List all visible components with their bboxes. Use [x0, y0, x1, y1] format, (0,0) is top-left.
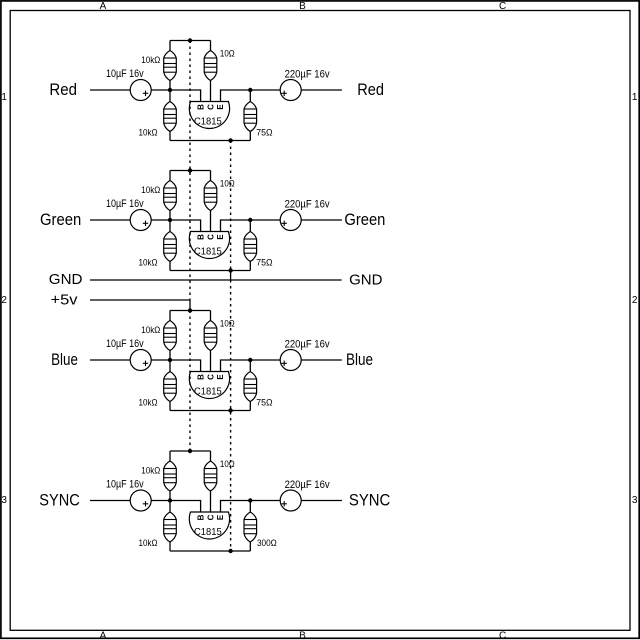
svg-text:Green: Green: [40, 210, 81, 229]
svg-text:10kΩ: 10kΩ: [139, 538, 158, 548]
svg-text:C: C: [206, 104, 215, 110]
svg-text:E: E: [216, 514, 225, 520]
capacitor C1 10uF input coupling: [130, 80, 151, 101]
resistor R2 10Ω collector load: [210, 41, 212, 51]
svg-text:B: B: [196, 234, 205, 240]
svg-text:10kΩ: 10kΩ: [141, 185, 160, 195]
wire: right lead of Blue output: [301, 359, 342, 361]
svg-text:C: C: [206, 374, 215, 380]
wire: bottom emitter rail of stage 4: [170, 550, 250, 552]
wire: left lead of Red input: [90, 89, 130, 91]
wire: top supply rail of stage 2: [170, 170, 211, 172]
node: GND bus tap: [228, 138, 232, 142]
svg-text:C: C: [499, 1, 506, 12]
svg-text:1: 1: [1, 92, 7, 103]
svg-text:E: E: [216, 374, 225, 380]
svg-text:+5v: +5v: [51, 292, 79, 308]
node: GND bus tap: [228, 268, 232, 272]
svg-text:B: B: [196, 104, 205, 110]
node: base junction of Q4: [168, 498, 172, 502]
resistor R16 300Ω emitter: [249, 501, 251, 513]
svg-text:10kΩ: 10kΩ: [141, 55, 160, 65]
svg-text:B: B: [196, 374, 205, 380]
svg-text:1: 1: [632, 92, 638, 103]
wire: left lead of Blue input: [90, 359, 130, 361]
svg-text:10µF 16v: 10µF 16v: [106, 68, 144, 80]
node: output junction: [248, 88, 252, 92]
wire: input cap to base node: [151, 500, 170, 502]
wire: left lead of SYNC input: [90, 500, 130, 502]
wire: input cap to base node: [151, 89, 170, 91]
svg-text:Blue: Blue: [346, 350, 373, 369]
svg-text:75Ω: 75Ω: [256, 258, 273, 268]
wire: input cap to base node: [151, 219, 170, 221]
wire: output node to output cap: [250, 89, 280, 91]
resistor R5 10kΩ upper bias: [169, 171, 171, 181]
svg-text:10kΩ: 10kΩ: [139, 258, 158, 268]
wire: base node to base pin of Q2: [170, 220, 201, 232]
svg-text:Red: Red: [49, 80, 77, 99]
wire: emitter pin of Q4 to output node: [221, 501, 251, 513]
svg-text:75Ω: 75Ω: [256, 398, 273, 408]
wire: emitter pin of Q2 to output node: [221, 220, 251, 232]
svg-text:2: 2: [632, 295, 638, 306]
wire: output node to output cap: [250, 219, 280, 221]
wire: right lead of Green output: [301, 219, 342, 221]
svg-text:10kΩ: 10kΩ: [141, 325, 160, 335]
wire: output node to output cap: [250, 500, 280, 502]
wire: Green emitter rail drop to GND rail: [230, 271, 232, 281]
resistor R13 10kΩ upper bias: [169, 451, 171, 461]
wire: emitter pin of Q1 to output node: [221, 90, 251, 102]
svg-text:10Ω: 10Ω: [220, 49, 235, 59]
wire: GND horizontal rail: [90, 279, 342, 281]
resistor R1 10kΩ upper bias: [169, 41, 171, 51]
wire: bottom emitter rail of stage 2: [170, 270, 250, 272]
svg-text:Red: Red: [357, 80, 384, 99]
svg-text:Green: Green: [344, 210, 385, 229]
resistor R8 75Ω emitter: [249, 220, 251, 232]
capacitor C3 10uF input coupling: [130, 210, 151, 231]
svg-text:220µF 16v: 220µF 16v: [285, 198, 330, 210]
bus wire: GND dashed bus, GND rail to SYNC rail: [230, 280, 232, 551]
wire: top supply rail of stage 1: [170, 40, 211, 42]
capacitor C8 220uF output coupling: [280, 490, 301, 511]
svg-text:GND: GND: [349, 272, 382, 288]
resistor R3 10kΩ lower bias: [169, 90, 171, 102]
wire: right lead of SYNC output: [301, 500, 342, 502]
node: +5v bus tap: [188, 168, 192, 172]
svg-text:A: A: [100, 630, 107, 640]
resistor R12 75Ω emitter: [249, 360, 251, 372]
svg-text:SYNC: SYNC: [39, 491, 80, 510]
wire: base node to base pin of Q4: [170, 501, 201, 513]
svg-text:10kΩ: 10kΩ: [139, 128, 158, 138]
svg-text:10kΩ: 10kΩ: [139, 398, 158, 408]
wire: input cap to base node: [151, 359, 170, 361]
resistor R7 10kΩ lower bias: [169, 220, 171, 232]
resistor R11 10kΩ lower bias: [169, 360, 171, 372]
svg-text:220µF 16v: 220µF 16v: [285, 479, 330, 491]
capacitor C7 10uF input coupling: [130, 490, 151, 511]
node: +5v bus tap: [188, 449, 192, 453]
svg-text:75Ω: 75Ω: [256, 128, 273, 138]
node: base junction of Q3: [168, 358, 172, 362]
resistor R9 10kΩ upper bias: [169, 311, 171, 321]
node: output junction: [248, 358, 252, 362]
svg-text:2: 2: [1, 295, 7, 306]
transistor Q3 2SC1815 (TO-92 outline): [189, 372, 229, 399]
wire: left lead of Green input: [90, 219, 130, 221]
bus wire: +5v dashed bus, Blue rail to SYNC rail: [189, 311, 191, 452]
svg-text:3: 3: [1, 495, 7, 506]
svg-text:10Ω: 10Ω: [220, 459, 235, 469]
wire: bottom emitter rail of stage 1: [170, 140, 250, 142]
capacitor C2 220uF output coupling: [280, 80, 301, 101]
wire: bottom emitter rail of stage 3: [170, 410, 250, 412]
svg-text:C1815: C1815: [194, 115, 222, 127]
svg-text:E: E: [216, 234, 225, 240]
svg-text:B: B: [299, 630, 306, 640]
wire: right lead of Red output: [301, 89, 342, 91]
resistor R15 10kΩ lower bias: [169, 501, 171, 513]
svg-text:A: A: [100, 1, 107, 12]
resistor R14 10Ω collector load: [210, 451, 212, 461]
wire: +5v feed to bus: [90, 299, 190, 301]
svg-text:C: C: [499, 630, 506, 640]
transistor Q4 2SC1815 (TO-92 outline): [189, 512, 229, 539]
svg-text:10µF 16v: 10µF 16v: [106, 338, 144, 350]
wire: top supply rail of stage 4: [170, 450, 211, 452]
transistor Q1 2SC1815 (TO-92 outline): [189, 102, 229, 129]
node: base junction of Q1: [168, 88, 172, 92]
capacitor C4 220uF output coupling: [280, 210, 301, 231]
svg-text:10Ω: 10Ω: [220, 179, 235, 189]
svg-text:Blue: Blue: [51, 350, 78, 369]
wire: base node to base pin of Q1: [170, 90, 201, 102]
capacitor C6 220uF output coupling: [280, 350, 301, 371]
svg-text:C: C: [206, 514, 215, 520]
svg-text:C1815: C1815: [194, 526, 222, 538]
svg-text:SYNC: SYNC: [349, 491, 390, 510]
svg-text:10µF 16v: 10µF 16v: [106, 479, 144, 491]
wire: base node to base pin of Q3: [170, 360, 201, 372]
bus wire: +5v dashed bus, Red rail to +5v feed: [189, 41, 191, 301]
svg-text:10µF 16v: 10µF 16v: [106, 198, 144, 210]
svg-text:C1815: C1815: [194, 385, 222, 397]
node: output junction: [248, 218, 252, 222]
svg-text:B: B: [299, 1, 306, 12]
wire: output node to output cap: [250, 359, 280, 361]
svg-text:220µF 16v: 220µF 16v: [285, 338, 330, 350]
svg-text:C1815: C1815: [194, 245, 222, 257]
resistor R4 75Ω emitter: [249, 90, 251, 102]
node: output junction: [248, 498, 252, 502]
node: +5v bus tap: [188, 38, 192, 42]
node: GND bus tap: [228, 408, 232, 412]
transistor Q2 2SC1815 (TO-92 outline): [189, 232, 229, 259]
wire: +5v feed drop to Blue top rail: [189, 300, 191, 311]
wire: top supply rail of stage 3: [170, 310, 211, 312]
svg-text:10Ω: 10Ω: [220, 319, 235, 329]
svg-text:3: 3: [632, 495, 638, 506]
svg-text:GND: GND: [49, 272, 83, 288]
svg-text:E: E: [216, 104, 225, 110]
node: base junction of Q2: [168, 218, 172, 222]
svg-text:C: C: [206, 234, 215, 240]
bus wire: GND dashed bus, Red rail to Green rail: [230, 141, 232, 271]
node: GND bus tap: [228, 549, 232, 553]
wire: emitter pin of Q3 to output node: [221, 360, 251, 372]
node: +5v bus tap: [188, 308, 192, 312]
svg-text:300Ω: 300Ω: [257, 538, 277, 548]
svg-text:B: B: [196, 514, 205, 520]
svg-text:220µF 16v: 220µF 16v: [285, 68, 330, 80]
svg-text:10kΩ: 10kΩ: [141, 465, 160, 475]
resistor R10 10Ω collector load: [210, 311, 212, 321]
capacitor C5 10uF input coupling: [130, 350, 151, 371]
resistor R6 10Ω collector load: [210, 171, 212, 181]
